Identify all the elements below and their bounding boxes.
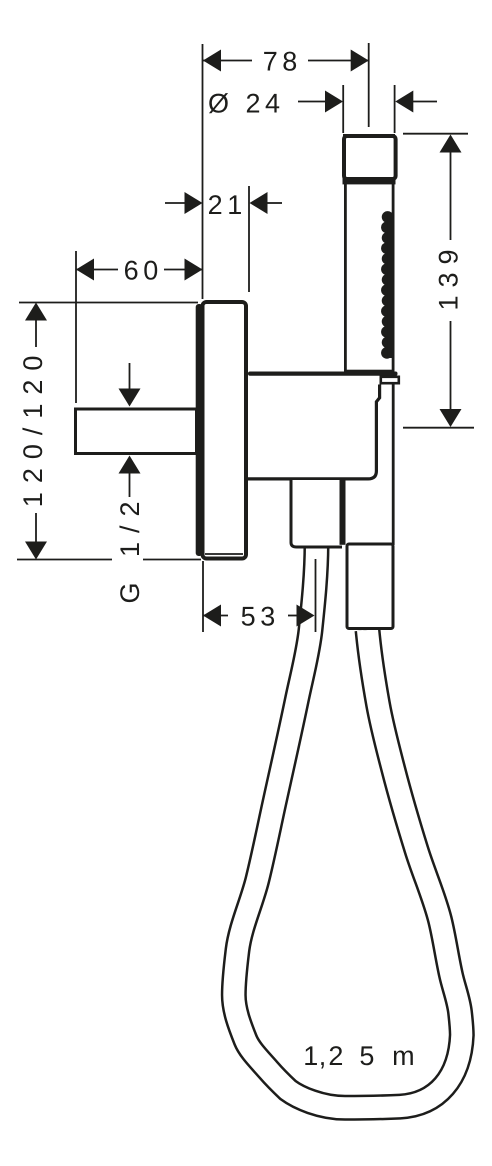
- holder clip tab: [381, 377, 399, 383]
- wall plate left lip: [196, 304, 203, 556]
- holder bottom edge and tail tube left edge: [248, 385, 380, 479]
- hose outlet left and bottom edge: [291, 480, 342, 547]
- dimension 60 left arrow: [76, 259, 94, 281]
- dimension 139 up arrow: [440, 135, 462, 153]
- svg-text:139: 139: [434, 241, 464, 310]
- dimension 120/120 up arrow: [25, 303, 47, 321]
- dimension 78 line: [203, 60, 252, 62]
- dimension 53 right extension line: [315, 559, 317, 632]
- dimension 120/120 down arrow: [25, 542, 47, 560]
- svg-text:Ø 24: Ø 24: [208, 88, 285, 118]
- dimension 60 right arrow: [185, 259, 203, 281]
- svg-text:21: 21: [208, 190, 247, 220]
- dimension 53 right arrow with tail: [288, 615, 298, 617]
- svg-text:1,25m: 1,25m: [303, 1041, 419, 1071]
- dimension 21 extension line: [248, 186, 250, 292]
- svg-text:78: 78: [263, 46, 302, 76]
- wall face extension line: [202, 44, 204, 299]
- hose nut: [347, 544, 393, 629]
- d24 extension line left: [342, 85, 344, 133]
- dimension 21 right arrow with tail: [250, 192, 268, 214]
- dimension 60 line: [76, 269, 118, 271]
- spray nozzle beads: [381, 211, 393, 359]
- hand shower cap: [343, 134, 395, 139]
- dimension 21 left arrow with tail: [165, 202, 186, 204]
- hand shower tail tube right edge: [392, 385, 395, 546]
- wall plate inner bottom line: [205, 553, 243, 555]
- spout: [76, 409, 197, 454]
- dimension d24 right leader: [408, 101, 437, 103]
- hose outlet piece fill: [291, 480, 343, 546]
- hand shower centerline extension: [368, 43, 370, 127]
- svg-text:60: 60: [124, 255, 163, 285]
- wall plate body: [203, 302, 247, 559]
- dimension 53 line: [203, 615, 228, 617]
- dimension 78 right arrow: [351, 50, 369, 72]
- hose outlet thick right bar: [340, 480, 346, 545]
- dimension 78 left arrow: [203, 50, 221, 72]
- svg-text:120/120: 120/120: [18, 347, 48, 508]
- holder top line: [248, 372, 398, 376]
- 120/120 bottom extension line: [17, 559, 112, 561]
- d24 extension line right: [394, 85, 396, 133]
- svg-text:53: 53: [241, 601, 280, 631]
- svg-text:G 1/2: G 1/2: [115, 492, 145, 603]
- G 1/2 upper arrow: [129, 363, 131, 392]
- dimension 53 left arrow: [203, 605, 221, 627]
- hose outer stroke: [234, 545, 462, 1108]
- dimension 60 extension line: [75, 251, 77, 403]
- 139 bottom extension line: [403, 427, 474, 429]
- hand shower body: [345, 183, 393, 371]
- hose inner white: [234, 545, 462, 1108]
- 120/120 top extension line: [19, 302, 198, 304]
- dimension 139 down arrow: [440, 409, 462, 427]
- dimension d24 left leader: [298, 101, 330, 103]
- G 1/2 lower arrow: [119, 456, 141, 474]
- hand shower divider band: [343, 177, 396, 184]
- 139 top extension line: [403, 133, 468, 135]
- dimension 53 left extension line: [202, 561, 204, 632]
